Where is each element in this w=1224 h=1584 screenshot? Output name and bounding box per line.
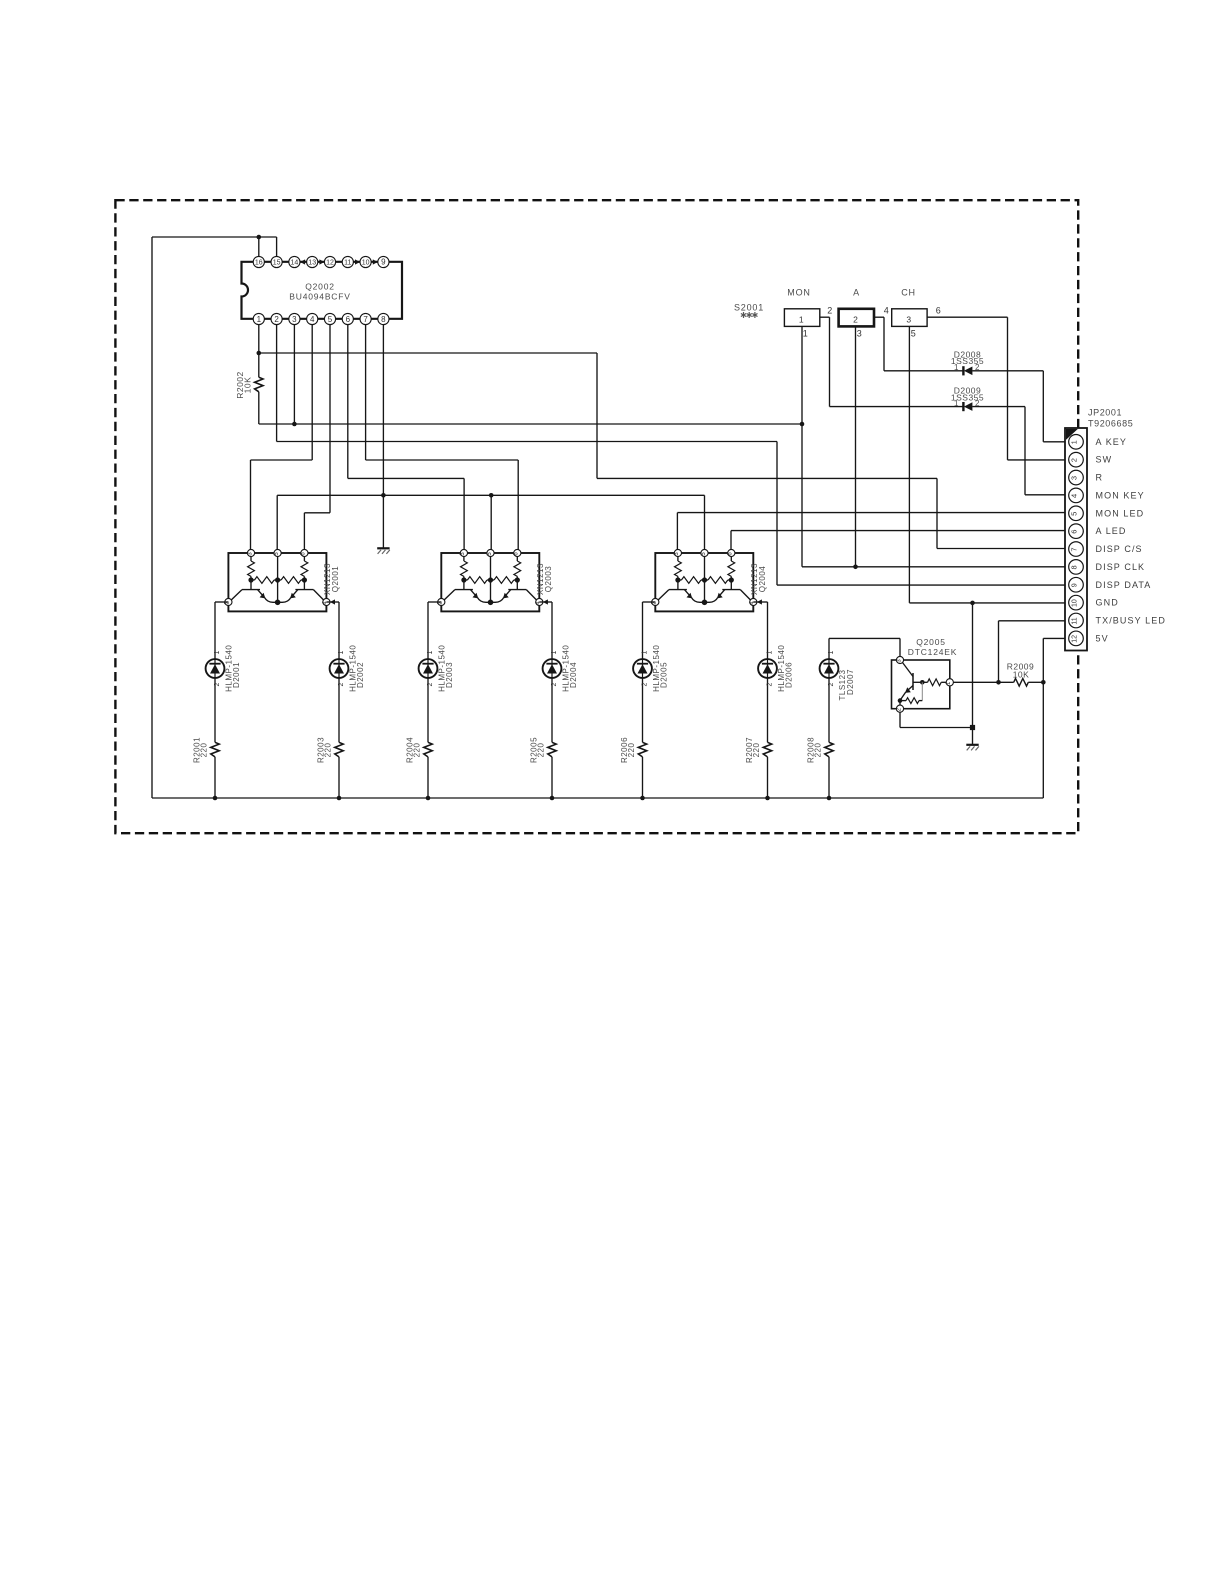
svg-text:2: 2 bbox=[551, 682, 558, 686]
resistor R2005 220 bbox=[548, 742, 556, 757]
wire into connector pin8 DISP CLK bbox=[802, 566, 1069, 568]
svg-text:1: 1 bbox=[767, 650, 774, 654]
Q2003 pin circles bbox=[460, 549, 467, 556]
transistor array Q2001 XN1213 package bbox=[228, 553, 326, 611]
switch MON (S2001-1) bbox=[784, 309, 819, 327]
pin arrow into pin 9 bbox=[373, 259, 378, 264]
svg-text:D2005: D2005 bbox=[660, 662, 669, 688]
wire connector pin11 TX/BUSY bbox=[999, 620, 1070, 622]
Q2004 transistor Q-left bbox=[677, 580, 679, 590]
junction R2003 on 5V bus bbox=[337, 796, 342, 801]
connector JP2001 pin 1 A KEY bbox=[1069, 435, 1084, 450]
svg-text:DISP C/S: DISP C/S bbox=[1096, 544, 1143, 554]
svg-text:3: 3 bbox=[292, 315, 297, 324]
wire bus to Q2004 pin5 bbox=[704, 495, 706, 553]
junction R2001 on 5V bus bbox=[213, 796, 218, 801]
wire IC pin8 GND down bbox=[382, 319, 384, 548]
wire Q2003 pin4 to D2004 bbox=[539, 601, 552, 603]
wire Q2004 pin2 to D2005 bbox=[643, 601, 656, 603]
junction MON sw on common line bbox=[800, 422, 805, 427]
wire IC pin5 down bbox=[329, 319, 331, 513]
svg-text:3: 3 bbox=[906, 315, 911, 325]
svg-text:D2002: D2002 bbox=[356, 662, 365, 688]
resistor R2007 220 bbox=[763, 742, 771, 757]
svg-text:1: 1 bbox=[257, 315, 262, 324]
svg-text:6: 6 bbox=[936, 306, 942, 316]
wire into connector pin1 A KEY bbox=[1043, 441, 1069, 443]
svg-text:DISP CLK: DISP CLK bbox=[1096, 562, 1146, 572]
wire strobe to DISP C/S bbox=[597, 477, 937, 479]
svg-text:2: 2 bbox=[274, 315, 279, 324]
svg-text:13: 13 bbox=[308, 260, 316, 267]
Q2005 base resistor bbox=[913, 681, 922, 683]
svg-text:2: 2 bbox=[827, 306, 833, 316]
switch A (S2001-2) bbox=[839, 309, 874, 327]
Q2003 transistor Q-right bbox=[516, 580, 518, 590]
svg-text:DTC124EK: DTC124EK bbox=[908, 647, 957, 657]
junction R2004 on 5V bus bbox=[426, 796, 431, 801]
svg-text:GND: GND bbox=[1096, 598, 1119, 608]
switch CH (S2001-3) bbox=[892, 309, 927, 327]
svg-text:12: 12 bbox=[326, 260, 334, 267]
svg-text:D2004: D2004 bbox=[569, 662, 578, 688]
junction GND bus bbox=[381, 493, 386, 498]
Q2004 transistor Q-right bbox=[730, 580, 732, 590]
Q2003 transistor Q-left bbox=[463, 580, 465, 590]
svg-text:2: 2 bbox=[338, 682, 345, 686]
wire MON pin2 down to D2009 bbox=[829, 317, 831, 406]
LED D2006 HLMP-1540 bbox=[767, 602, 769, 659]
Q2001 pin circles bbox=[247, 549, 254, 556]
svg-text:5: 5 bbox=[1070, 512, 1079, 516]
connector JP2001 pin 2 SW bbox=[1069, 452, 1084, 467]
wire IC pin7 down bbox=[365, 319, 367, 460]
dashed schematic border frame bbox=[115, 200, 1078, 833]
resistor R2004 220 bbox=[424, 742, 432, 757]
svg-text:A KEY: A KEY bbox=[1096, 437, 1128, 447]
wire R2002 bottom / IC pin3 / switch common bbox=[259, 423, 802, 425]
svg-text:4: 4 bbox=[310, 315, 315, 324]
wire pin5 to Q2001 right bbox=[304, 512, 330, 514]
transistor array Q2003 XN1213 package bbox=[441, 553, 539, 611]
svg-text:4: 4 bbox=[884, 306, 890, 316]
ground symbol (Q2005) bbox=[966, 744, 978, 746]
junction R2007 on 5V bus bbox=[765, 796, 770, 801]
junction R2006 on 5V bus bbox=[640, 796, 645, 801]
connector JP2001 pin 5 MON LED bbox=[1069, 506, 1084, 521]
svg-text:D2006: D2006 bbox=[785, 662, 794, 688]
Q2001 pin4 wire arrowhead bbox=[330, 599, 335, 604]
wire down to Q2004 pin6 bbox=[730, 531, 732, 553]
wire Q2004 pin4 to D2006 bbox=[753, 601, 767, 603]
Q2001 transistor Q-right bbox=[303, 580, 305, 590]
svg-text:1: 1 bbox=[338, 650, 345, 654]
resistor R2003 220 bbox=[335, 742, 343, 757]
Q2001 internal base resistors bbox=[248, 561, 255, 576]
IC Q2002 top pins 16-9 bbox=[253, 256, 264, 267]
svg-text:12: 12 bbox=[1072, 635, 1079, 643]
wire into connector pin7 DISP C/S bbox=[937, 548, 1069, 550]
wire GND down to Q2005 emitter bbox=[972, 603, 974, 728]
pin arrow into pin 10 bbox=[355, 259, 360, 264]
svg-text:MON KEY: MON KEY bbox=[1096, 490, 1145, 500]
wire IC pin1 to strobe node bbox=[258, 319, 260, 353]
svg-text:R: R bbox=[1096, 473, 1104, 483]
svg-text:Q2002: Q2002 bbox=[305, 282, 335, 292]
svg-text:1: 1 bbox=[551, 650, 558, 654]
svg-text:5: 5 bbox=[911, 329, 917, 339]
svg-text:BU4094BCFV: BU4094BCFV bbox=[289, 292, 350, 302]
Q2003 emitter junction bbox=[488, 600, 494, 606]
resistor R2001 220 bbox=[211, 742, 219, 757]
svg-text:1: 1 bbox=[1070, 440, 1079, 444]
wire CH sw pin5 down bbox=[908, 326, 910, 603]
wire A pin4 down to D2008 bbox=[883, 317, 885, 371]
wire Q2003 pin2 to D2003 bbox=[428, 601, 441, 603]
junction GND branch bbox=[970, 601, 975, 606]
IC U Q2002 BU4094BCFV body bbox=[242, 262, 403, 319]
Q2005 emitter junction bbox=[898, 698, 903, 703]
svg-text:A: A bbox=[853, 288, 860, 298]
svg-text:2: 2 bbox=[214, 682, 221, 686]
wire Q2001 pin4 to D2002 bbox=[326, 601, 339, 603]
Q2003 pin4 wire arrowhead bbox=[543, 599, 548, 604]
svg-text:DISP DATA: DISP DATA bbox=[1096, 580, 1152, 590]
resistor R2008 220 bbox=[825, 742, 833, 757]
svg-text:2: 2 bbox=[853, 315, 858, 325]
svg-text:JP2001: JP2001 bbox=[1088, 408, 1122, 418]
connector JP2001 pin 12 5V bbox=[1069, 631, 1084, 646]
svg-text:Q2003: Q2003 bbox=[544, 566, 553, 593]
connector JP2001 T9206685 body bbox=[1065, 428, 1087, 651]
resistor R2002 10K bbox=[258, 353, 260, 377]
svg-text:9: 9 bbox=[381, 258, 386, 267]
svg-text:A LED: A LED bbox=[1096, 526, 1127, 536]
wire down to Q2001 pin6 bbox=[303, 513, 305, 553]
junction Q2003 emitter bbox=[489, 493, 494, 498]
svg-text:Q2001: Q2001 bbox=[331, 566, 340, 593]
wire to IC pin 15 bbox=[276, 237, 278, 262]
wire A sw pin4 bbox=[874, 316, 884, 318]
wire IC pin3 down bbox=[293, 319, 295, 424]
connector pin1 triangle marker bbox=[1066, 429, 1078, 440]
LED D2004 HLMP-1540 bbox=[551, 602, 553, 659]
svg-text:3: 3 bbox=[857, 329, 863, 339]
wire GND/emitter bus y495 bbox=[277, 494, 704, 496]
svg-text:2: 2 bbox=[1070, 458, 1079, 462]
wire down to Q2003 pin6 bbox=[517, 460, 519, 553]
svg-text:1: 1 bbox=[954, 399, 959, 408]
wire to IC pin 16 bbox=[258, 237, 260, 262]
wire into connector pin9 DISP DATA bbox=[777, 584, 1069, 586]
svg-text:7: 7 bbox=[363, 315, 368, 324]
junction pin3 on common line bbox=[292, 422, 297, 427]
junction 5V/pin16 bbox=[257, 235, 262, 240]
LED D2003 HLMP-1540 bbox=[427, 602, 429, 659]
junction R2009 left / TX line bbox=[996, 680, 1001, 685]
svg-text:11: 11 bbox=[344, 260, 351, 267]
Q2004 emitter junction bbox=[702, 600, 708, 606]
wire CH pin6 down bbox=[1007, 317, 1009, 460]
wire IC pin6 down bbox=[347, 319, 349, 478]
svg-text:SW: SW bbox=[1096, 455, 1113, 465]
Q2004 internal base resistors bbox=[675, 561, 682, 576]
wire down to Q2003 pin3 bbox=[463, 478, 465, 553]
svg-text:220: 220 bbox=[752, 743, 761, 758]
svg-text:2: 2 bbox=[767, 682, 774, 686]
svg-text:10: 10 bbox=[1072, 599, 1079, 607]
svg-text:T9206685: T9206685 bbox=[1088, 419, 1133, 429]
svg-text:4: 4 bbox=[1070, 494, 1079, 498]
Q2004 pin circles bbox=[674, 549, 681, 556]
svg-text:220: 220 bbox=[814, 743, 823, 758]
Q2005 base-emitter resistor bbox=[921, 682, 923, 700]
wire down to Q2001 pin3 bbox=[250, 460, 252, 553]
Q2005 pin circles bbox=[896, 656, 903, 663]
connector JP2001 pin 6 A LED bbox=[1069, 524, 1084, 539]
svg-text:1: 1 bbox=[642, 650, 649, 654]
connector JP2001 pin 7 DISP C/S bbox=[1069, 542, 1084, 557]
wire A LED line pin6 bbox=[731, 530, 1069, 532]
junction A pin3 on CLK line bbox=[853, 565, 858, 570]
svg-text:7: 7 bbox=[1070, 547, 1079, 551]
svg-text:220: 220 bbox=[537, 743, 546, 758]
svg-text:1: 1 bbox=[214, 650, 221, 654]
svg-text:5: 5 bbox=[328, 315, 333, 324]
pin arrow into pin 14 bbox=[300, 259, 305, 264]
Q2005 internal transistor bbox=[903, 663, 914, 677]
connector JP2001 pin 3 R bbox=[1069, 470, 1084, 485]
junction R2008 on 5V bus bbox=[827, 796, 832, 801]
transistor Q2005 DTC124EK package bbox=[892, 660, 950, 709]
connector JP2001 pin 8 DISP CLK bbox=[1069, 560, 1084, 575]
wire bottom 5V bus bbox=[152, 797, 1043, 799]
LED D2007 TLS123 bbox=[820, 659, 839, 678]
junction R2009 right bbox=[1041, 680, 1046, 685]
wire IC pin2 down bbox=[276, 319, 278, 442]
resistor R2009 10K bbox=[953, 681, 1014, 683]
svg-text:1: 1 bbox=[427, 650, 434, 654]
wire down to Q2004 pin3 bbox=[676, 513, 678, 553]
svg-text:220: 220 bbox=[324, 743, 333, 758]
svg-text:10: 10 bbox=[362, 260, 370, 267]
svg-text:MON: MON bbox=[787, 288, 810, 298]
wire into connector pin4 MON KEY bbox=[1025, 494, 1069, 496]
wire MON sw pin1 down bbox=[801, 326, 803, 567]
wire Q2005 collector to D2007 bbox=[829, 637, 900, 639]
Q2003 internal base resistors bbox=[461, 561, 468, 576]
svg-text:6: 6 bbox=[1070, 530, 1079, 534]
svg-text:D2003: D2003 bbox=[445, 662, 454, 688]
node R2002 top junction bbox=[257, 351, 262, 356]
ground symbol (IC pin8) bbox=[377, 547, 389, 549]
svg-text:MON LED: MON LED bbox=[1096, 508, 1145, 518]
wire MON sw pin2 bbox=[820, 316, 830, 318]
svg-text:220: 220 bbox=[627, 743, 636, 758]
connector JP2001 pin 11 TX/BUSY LED bbox=[1069, 613, 1084, 628]
svg-text:220: 220 bbox=[200, 743, 209, 758]
wire strobe drop x597 bbox=[596, 353, 598, 478]
svg-text:D2001: D2001 bbox=[232, 662, 241, 688]
svg-text:2: 2 bbox=[975, 363, 980, 372]
transistor array Q2004 XN1213 package bbox=[655, 553, 753, 611]
svg-text:Q2005: Q2005 bbox=[916, 637, 946, 647]
svg-text:TX/BUSY LED: TX/BUSY LED bbox=[1096, 616, 1166, 626]
wire data drop x777 bbox=[776, 442, 778, 586]
svg-text:CH: CH bbox=[901, 288, 916, 298]
svg-text:16: 16 bbox=[255, 260, 263, 267]
LED D2005 HLMP-1540 bbox=[642, 602, 644, 659]
wire left 5V rail bbox=[151, 237, 153, 798]
wire IC pin4 down bbox=[311, 319, 313, 460]
svg-text:2: 2 bbox=[427, 682, 434, 686]
svg-text:S2001: S2001 bbox=[734, 303, 764, 313]
svg-text:D2007: D2007 bbox=[846, 669, 855, 695]
IC Q2002 bottom pins 1-8 bbox=[253, 313, 264, 324]
svg-text:1: 1 bbox=[828, 650, 835, 654]
svg-text:5V: 5V bbox=[1096, 633, 1109, 643]
wire A sw pin3 down bbox=[855, 326, 857, 567]
svg-text:6: 6 bbox=[346, 315, 351, 324]
LED D2001 HLMP-1540 bbox=[214, 602, 216, 659]
svg-text:2: 2 bbox=[642, 682, 649, 686]
svg-text:9: 9 bbox=[1070, 583, 1079, 587]
svg-text:3: 3 bbox=[1070, 476, 1079, 480]
svg-text:Q2004: Q2004 bbox=[758, 566, 767, 593]
wire CH sw pin6 bbox=[927, 316, 1007, 318]
wire pin4 to Q2001 left bbox=[251, 459, 313, 461]
LED D2002 HLMP-1540 bbox=[338, 602, 340, 659]
svg-text:2: 2 bbox=[828, 682, 835, 686]
svg-text:220: 220 bbox=[413, 743, 422, 758]
wire bus to Q2003 pin5 bbox=[490, 495, 492, 553]
svg-text:11: 11 bbox=[1072, 617, 1079, 624]
wire 5V top: IC pins 16/15 to left rail bbox=[152, 236, 277, 238]
connector JP2001 pin 10 GND bbox=[1069, 595, 1084, 610]
Q2003 base-emitter resistors bbox=[490, 555, 492, 602]
Q2001 emitter junction bbox=[275, 600, 281, 606]
wire drop to pin7 row bbox=[936, 478, 938, 548]
diode D2009 1SS355 bbox=[830, 406, 963, 408]
Q2004 pin4 wire arrowhead bbox=[757, 599, 762, 604]
connector JP2001 pin 9 DISP DATA bbox=[1069, 577, 1084, 592]
wire into connector pin2 SW bbox=[1008, 459, 1070, 461]
wire connector pin12 5V bbox=[1043, 637, 1069, 639]
wire pin7 to Q2003 right bbox=[366, 459, 519, 461]
wire strobe line y353 bbox=[259, 352, 597, 354]
svg-text:2: 2 bbox=[975, 399, 980, 408]
wire Q2001 pin2 to D2001 bbox=[215, 601, 228, 603]
diode D2008 1SS355 bbox=[884, 370, 963, 372]
wire MON LED line pin5 bbox=[677, 512, 1069, 514]
svg-text:10K: 10K bbox=[243, 377, 253, 394]
wire bus to Q2001 pin5 bbox=[276, 495, 278, 553]
wire pin6 to Q2003 left bbox=[348, 477, 464, 479]
svg-text:8: 8 bbox=[1070, 565, 1079, 569]
svg-text:15: 15 bbox=[273, 260, 281, 267]
pin arrow into pin 12 bbox=[319, 259, 324, 264]
Q2001 base-emitter resistors bbox=[277, 555, 279, 602]
resistor R2006 220 bbox=[638, 742, 646, 757]
Q2001 transistor Q-left bbox=[250, 580, 252, 590]
junction R2005 on 5V bus bbox=[550, 796, 555, 801]
connector JP2001 pin 4 MON KEY bbox=[1069, 488, 1084, 503]
svg-text:1: 1 bbox=[954, 363, 959, 372]
svg-text:10K: 10K bbox=[1013, 670, 1030, 680]
svg-text:1: 1 bbox=[803, 329, 809, 339]
wire into connector pin10 GND bbox=[909, 602, 1069, 604]
svg-text:14: 14 bbox=[291, 260, 299, 267]
wire pin2 data line bbox=[277, 441, 777, 443]
Q2004 base-emitter resistors bbox=[704, 555, 706, 602]
svg-text:1: 1 bbox=[799, 315, 804, 325]
svg-text:8: 8 bbox=[381, 315, 386, 324]
wire Q2005 emitter to ground bbox=[899, 712, 901, 727]
